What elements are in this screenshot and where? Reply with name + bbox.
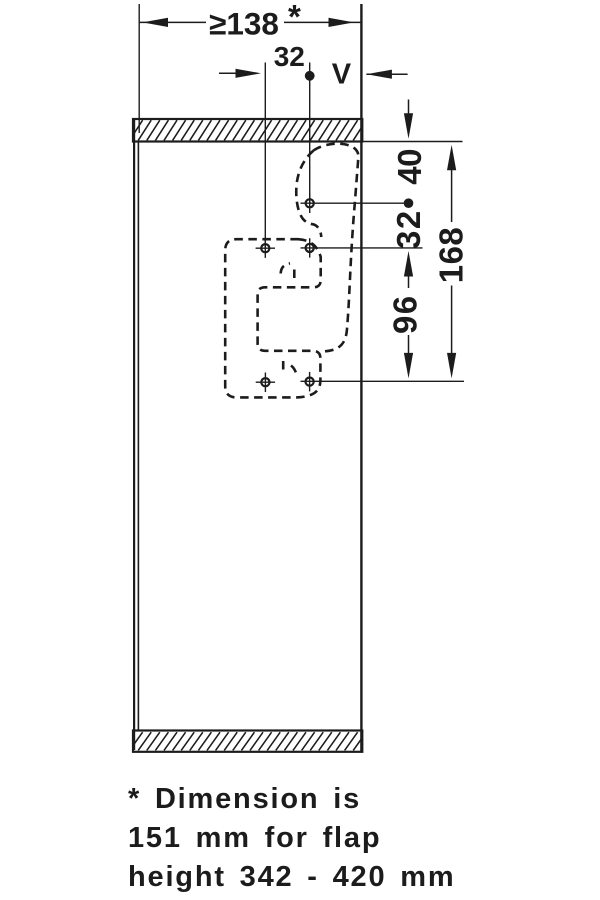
- drill hole H2 middle front row: [256, 239, 275, 258]
- wire: extension line second hole level: [301, 247, 423, 249]
- svg-text:≥138: ≥138: [209, 5, 279, 41]
- svg-text:96: 96: [387, 294, 424, 334]
- svg-text:32: 32: [390, 209, 427, 249]
- fitting outline: mounting plate (dashed): [225, 239, 321, 397]
- svg-text:V: V: [332, 59, 352, 91]
- svg-text:*: *: [288, 0, 301, 35]
- wire: extension line V hole row: [309, 63, 311, 204]
- wire: cabinet left outer edge: [133, 120, 135, 750]
- bottom panel (hatched cross-section): [121, 731, 375, 752]
- fitting outline: lever arm top and right edge (dashed): [314, 144, 359, 352]
- wire: extension line top panel underside: [363, 141, 463, 143]
- caption footnote: [128, 780, 455, 898]
- fitting detail: lower inner arc: [291, 366, 297, 377]
- drill hole H4 bottom front row: [256, 373, 275, 393]
- svg-text:32: 32: [274, 41, 305, 72]
- fitting detail: upper inner vertical: [293, 270, 296, 281]
- dimension 96 arrows: [404, 251, 413, 378]
- wire: extension line bottom hole level: [301, 380, 465, 382]
- node V reference dot: [305, 71, 315, 81]
- node dot on 40/32 chain at first hole level: [404, 198, 414, 208]
- dimension 168 arrows: [447, 145, 456, 379]
- drill hole H5 bottom V row: [306, 372, 314, 392]
- top panel (hatched cross-section): [121, 119, 375, 142]
- fitting outline: lever arm left/inner edge (dashed): [296, 151, 321, 238]
- dimension &ge;138* top: [139, 8, 361, 36]
- wire: extension line first hole level: [301, 202, 413, 204]
- wire: left extension line of &ge;138* dimension: [138, 4, 140, 133]
- drill hole H3 middle V row: [306, 238, 314, 257]
- dimension V: outside arrow pointing left at cabinet edge: [366, 70, 407, 79]
- dimension 32 top: outside arrow pointing right: [219, 69, 261, 78]
- svg-text:40: 40: [391, 149, 428, 185]
- fitting detail: upper inner corner arc: [281, 263, 290, 273]
- wire: cabinet right edge / right extension line: [360, 4, 362, 751]
- fitting detail: lower inner vertical: [282, 361, 285, 371]
- dimension 40: outside down arrow above top panel underside line: [404, 100, 413, 139]
- drill hole H1 top (32/V row): [306, 194, 314, 213]
- svg-text:168: 168: [433, 227, 470, 284]
- wire: cabinet left inner edge: [137, 142, 139, 732]
- wire: extension line front hole row: [264, 63, 266, 249]
